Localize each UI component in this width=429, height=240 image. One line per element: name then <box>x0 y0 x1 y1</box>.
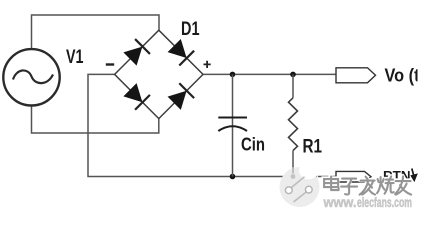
diode D1 bottom-left (anode at left corner, points to bottom corner) <box>123 83 150 110</box>
resistor R1 zigzag <box>289 98 298 151</box>
node junction dot: R1 bottom <box>290 174 296 180</box>
output tag Vo <box>336 68 376 83</box>
node junction dot: R1 top <box>290 72 296 78</box>
plus sign at bridge right <box>204 61 211 68</box>
resistor R1 bottom lead <box>292 151 294 177</box>
wire top: V1 top to bridge top corner <box>32 15 160 49</box>
voltage source V1 sine symbol <box>13 70 53 83</box>
watermark CJK soft white glow (电子发烧友) <box>324 176 411 194</box>
diode D1 top-left (anode at left corner, points to top corner) <box>123 39 150 66</box>
diode D1 top-right (anode at top corner, points to right corner) <box>167 39 194 66</box>
svg-text:Cin: Cin <box>241 133 265 154</box>
diode bridge D1 arms (diamond) <box>115 30 203 118</box>
voltage source V1 circle <box>3 49 59 105</box>
wire negative rail: bridge left corner to bottom rail to RTN tag <box>88 74 336 176</box>
resistor R1 lead faint continuation under logo <box>292 167 294 174</box>
minus sign at bridge left <box>106 63 114 65</box>
output tag RTN <box>336 171 371 182</box>
capacitor Cin lead <box>232 74 234 176</box>
capacitor Cin top plate <box>218 117 247 119</box>
watermark logo circle <box>280 167 320 207</box>
watermark url text halo <box>323 195 412 210</box>
wire bottom: V1 bottom to bridge bottom corner <box>32 106 159 133</box>
arrow after RTN <box>412 169 414 176</box>
diode D1 bottom-right (anode at bottom corner, points to right corner) <box>167 83 194 110</box>
svg-text:D1: D1 <box>181 19 200 40</box>
wire positive rail: bridge right corner to Vo tag <box>203 73 336 75</box>
watermark url text <box>323 195 412 210</box>
resistor R1 top lead <box>292 74 294 97</box>
node junction dot: Cin bottom <box>230 174 236 180</box>
svg-text:www.: www. <box>323 195 357 210</box>
watermark logo white crescent <box>297 161 319 183</box>
capacitor Cin bottom curved plate <box>218 126 247 131</box>
svg-text:elecfans.com: elecfans.com <box>357 195 412 210</box>
node junction dot: Cin top <box>230 72 236 78</box>
svg-text:V1: V1 <box>66 47 84 68</box>
svg-text:Vo (t: Vo (t <box>385 65 420 85</box>
watermark logo link strokes <box>291 177 308 202</box>
watermark logo small node circles <box>285 187 292 194</box>
watermark CJK white emboss highlight <box>323 175 410 193</box>
svg-text:R1: R1 <box>303 135 323 157</box>
watermark CJK gray shadow strokes <box>324 177 411 195</box>
